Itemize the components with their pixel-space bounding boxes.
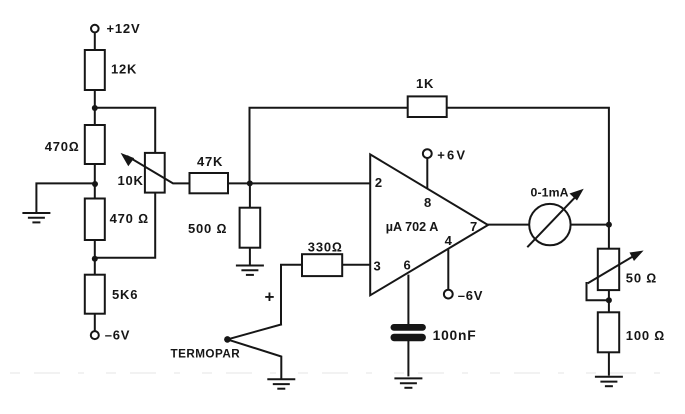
svg-text:7: 7 bbox=[470, 219, 478, 234]
svg-text:10K: 10K bbox=[118, 173, 144, 188]
svg-text:5K6: 5K6 bbox=[112, 287, 138, 302]
svg-text:50 Ω: 50 Ω bbox=[626, 271, 657, 286]
svg-text:47K: 47K bbox=[197, 154, 223, 169]
svg-text:3: 3 bbox=[374, 259, 382, 274]
svg-text:0-1mA: 0-1mA bbox=[531, 186, 569, 200]
svg-text:500 Ω: 500 Ω bbox=[188, 221, 227, 236]
svg-text:100 Ω: 100 Ω bbox=[626, 328, 665, 343]
svg-text:470 Ω: 470 Ω bbox=[110, 211, 149, 226]
svg-text:+12V: +12V bbox=[107, 21, 141, 36]
svg-text:470Ω: 470Ω bbox=[45, 139, 80, 154]
svg-text:8: 8 bbox=[424, 195, 432, 210]
svg-text:100nF: 100nF bbox=[433, 328, 477, 343]
svg-text:–6V: –6V bbox=[105, 328, 131, 343]
svg-text:1K: 1K bbox=[416, 76, 434, 91]
svg-text:330Ω: 330Ω bbox=[308, 240, 343, 255]
svg-text:6: 6 bbox=[404, 257, 412, 272]
svg-text:TERMOPAR: TERMOPAR bbox=[171, 348, 241, 361]
svg-text:12K: 12K bbox=[111, 62, 137, 77]
svg-text:2: 2 bbox=[375, 175, 383, 190]
svg-text:+6V: +6V bbox=[437, 148, 467, 163]
svg-text:4: 4 bbox=[445, 233, 453, 248]
svg-text:µA 702 A: µA 702 A bbox=[386, 220, 439, 234]
svg-text:–6V: –6V bbox=[458, 288, 484, 303]
svg-text:+: + bbox=[265, 288, 276, 307]
